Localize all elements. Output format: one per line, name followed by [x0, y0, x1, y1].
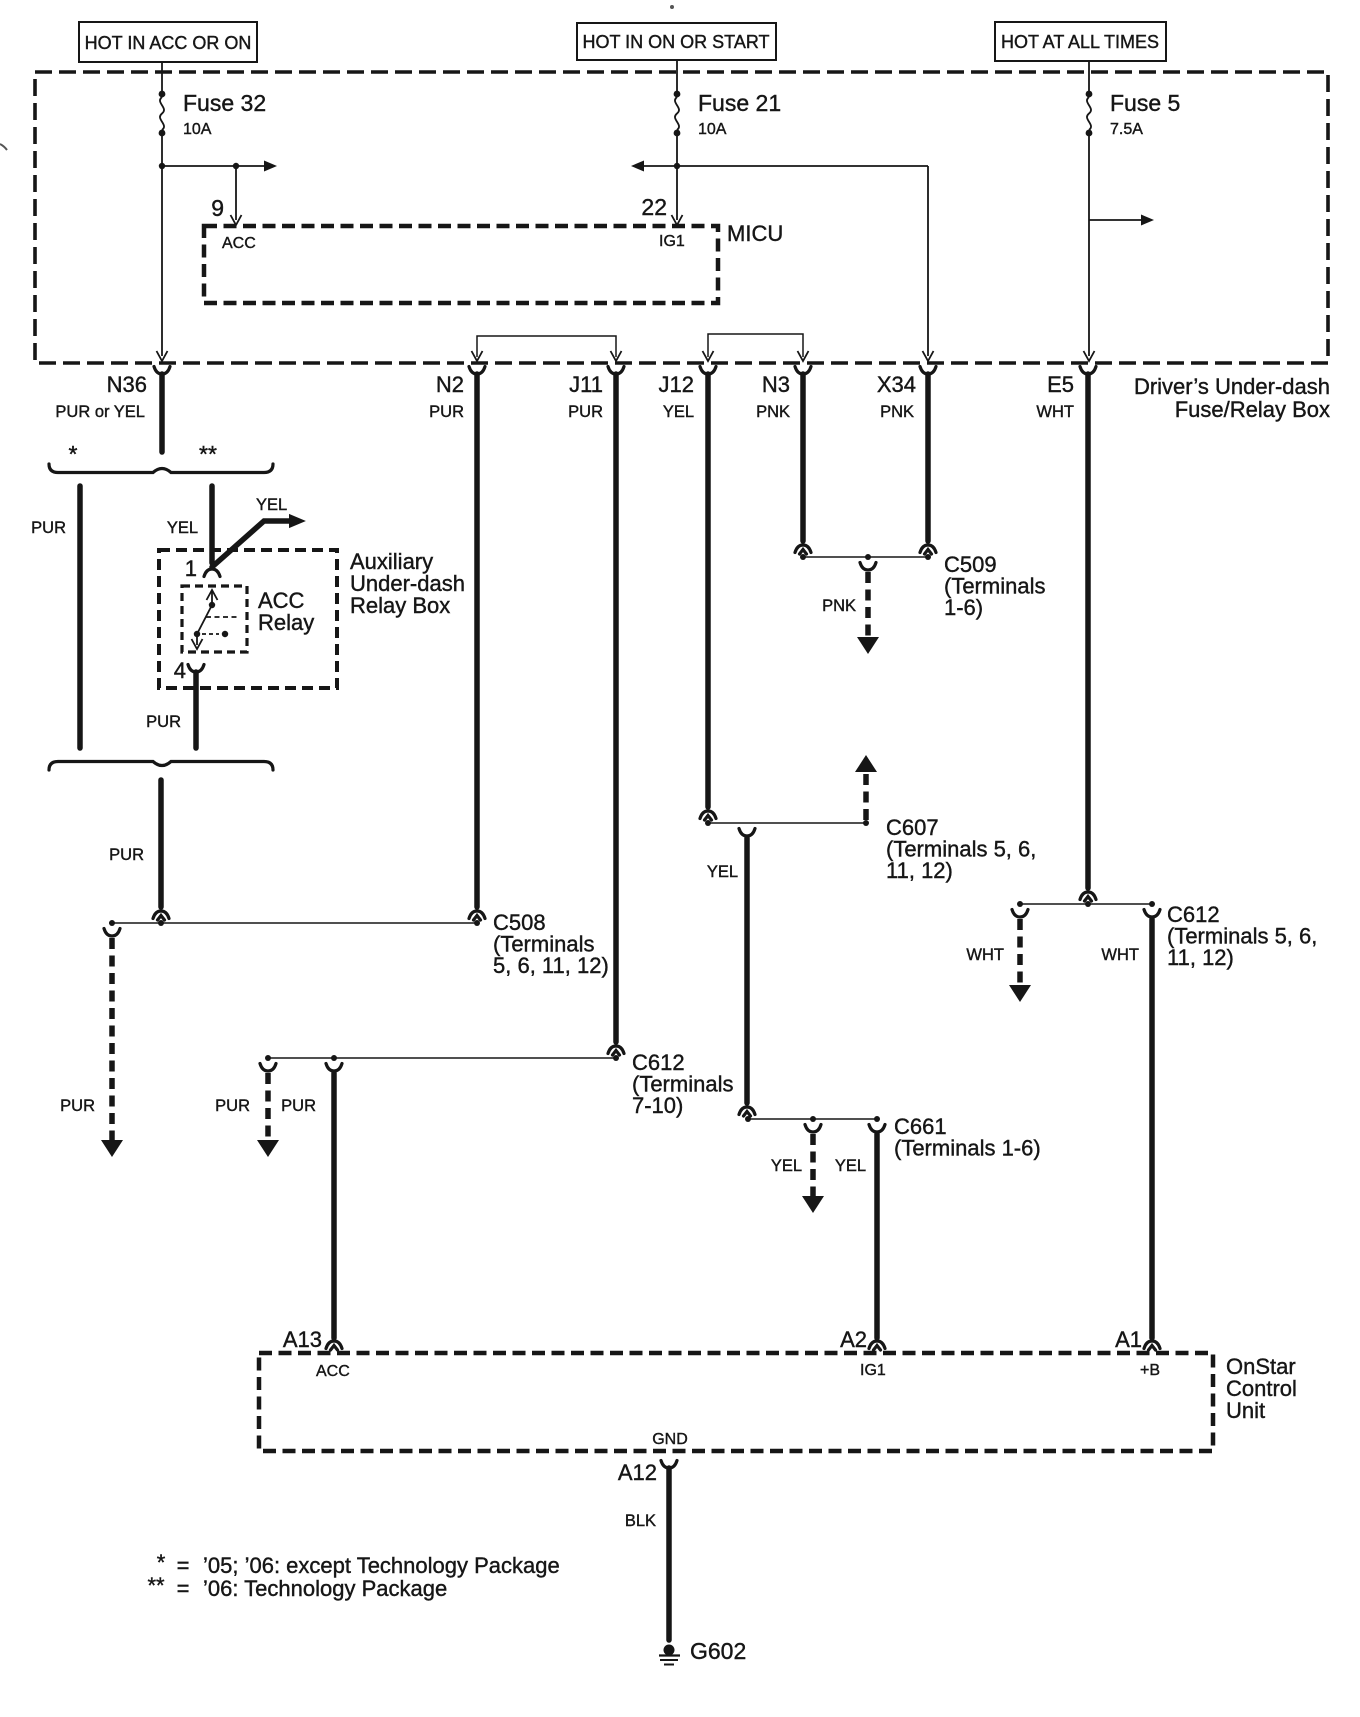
svg-text:HOT AT ALL TIMES: HOT AT ALL TIMES — [1001, 32, 1159, 52]
wire color label YEL (C607) — [707, 863, 738, 881]
connector E5 — [1080, 367, 1096, 375]
connector C612 end of E5 wire — [1080, 892, 1096, 901]
label MICU — [727, 221, 783, 246]
svg-text:WHT: WHT — [1036, 403, 1074, 421]
svg-text:HOT IN ON OR START: HOT IN ON OR START — [582, 32, 769, 52]
wire dashed WHT continues (C612) — [1009, 919, 1031, 1002]
connector C509 end of N3 wire — [795, 545, 811, 554]
MICU box — [204, 226, 718, 303]
wire N36 drop inside box — [157, 166, 168, 361]
wire YEL to OnStar A2 — [874, 1134, 880, 1338]
wire color label WHT (A1 wire) — [1101, 946, 1139, 964]
connector C508 end of N2 wire — [469, 911, 485, 920]
node C661 dots — [745, 1116, 880, 1122]
svg-text:YEL: YEL — [771, 1157, 802, 1175]
wire fuse 5 feed stub — [1088, 61, 1090, 92]
wire WHT to OnStar A1 — [1149, 919, 1155, 1338]
connector branch C612 to A1 — [1144, 910, 1160, 918]
connector N3 — [795, 367, 811, 375]
relay actuation dashed link — [206, 616, 238, 618]
svg-text:YEL: YEL — [835, 1157, 866, 1175]
connector N36 — [154, 367, 170, 375]
wire dashed YEL continues (C661) — [802, 1134, 824, 1213]
legend line 1 — [157, 1550, 560, 1578]
wire YEL arrow out of relay pin 1 — [212, 514, 306, 567]
stray scan mark top — [670, 5, 674, 9]
label A12 — [618, 1460, 657, 1485]
node C509 dots — [800, 554, 931, 560]
svg-text:N3: N3 — [762, 372, 790, 397]
svg-text:BLK: BLK — [625, 1512, 656, 1530]
connector C509 end of X34 wire — [920, 545, 936, 554]
svg-text:Fuse 5: Fuse 5 — [1110, 90, 1180, 116]
svg-text:N2: N2 — [436, 372, 464, 397]
connector C508 end of merged wire — [153, 911, 169, 920]
Auxiliary Under-dash Relay Box (dashed) — [159, 550, 337, 688]
stray scan mark left edge — [0, 144, 7, 150]
wire fuse 21 to junction — [676, 136, 678, 166]
node C612 dots (7-10) — [265, 1055, 619, 1061]
wire horizontal with left arrow and to X34 drop — [631, 161, 928, 172]
pin label ACC (OnStar) — [316, 1363, 350, 1380]
svg-text:4: 4 — [174, 658, 186, 683]
wire BLK to G602 — [666, 1468, 672, 1640]
wire X34 drop inside box — [923, 166, 934, 361]
wire color label YEL (J12) — [663, 403, 694, 421]
svg-text:(Terminals 1-6): (Terminals 1-6) — [894, 1136, 1041, 1161]
svg-text:Driver’s Under-dash: Driver’s Under-dash — [1134, 374, 1330, 399]
svg-text:IG1: IG1 — [860, 1362, 886, 1379]
relay contact node upper — [209, 602, 215, 608]
svg-text:11, 12): 11, 12) — [1167, 945, 1234, 970]
label C508 (Terminals 5, 6, 11, 12) — [493, 910, 609, 978]
svg-text:’06: Technology Package: ’06: Technology Package — [203, 1576, 447, 1601]
option split bracket top — [49, 464, 273, 473]
svg-text:E5: E5 — [1047, 372, 1074, 397]
wire N3 to C509 — [800, 374, 806, 541]
svg-text:PNK: PNK — [822, 597, 856, 615]
wire to MICU pin 9 with arrow — [231, 166, 242, 225]
svg-text:Fuse 21: Fuse 21 — [698, 90, 781, 116]
pin label ACC (MICU) — [222, 235, 256, 252]
label N3 — [762, 372, 790, 397]
svg-text:PUR: PUR — [429, 403, 464, 421]
svg-text:**: ** — [147, 1573, 165, 1598]
svg-text:22: 22 — [641, 194, 667, 220]
wire C661 tie line — [747, 1118, 877, 1120]
wire C509 tie line — [803, 556, 928, 558]
label N36 — [107, 372, 147, 397]
label J11 — [569, 372, 603, 397]
pin number 1 — [185, 556, 197, 581]
label C612 (Terminals 5, 6, 11, 12) — [1167, 902, 1317, 970]
svg-text:PUR: PUR — [60, 1097, 95, 1115]
wire color label WHT (C612 arrow) — [966, 946, 1004, 964]
relay alternate contact dashed — [202, 631, 228, 637]
wire branch right arrow from E5 drop — [1089, 215, 1154, 226]
svg-text:Relay Box: Relay Box — [350, 593, 450, 618]
svg-text:PUR: PUR — [31, 519, 66, 537]
node C508 dots — [109, 920, 480, 926]
svg-text:*: * — [157, 1550, 166, 1575]
wire color label YEL (arrow) — [256, 496, 287, 514]
wire to MICU pin 22 with arrow — [672, 166, 683, 225]
label A13 — [283, 1327, 322, 1352]
connector branch C612 left — [260, 1064, 276, 1072]
fuse F5 — [1086, 91, 1093, 137]
label G602 — [690, 1638, 746, 1664]
connector relay pin 4 — [188, 665, 204, 673]
svg-text:Unit: Unit — [1226, 1398, 1265, 1423]
connector A1 — [1144, 1341, 1160, 1350]
label J12 — [659, 372, 694, 397]
svg-text:A1: A1 — [1115, 1327, 1142, 1352]
svg-text:PUR: PUR — [215, 1097, 250, 1115]
svg-text:PUR: PUR — [109, 846, 144, 864]
svg-text:1: 1 — [185, 556, 197, 581]
svg-text:PNK: PNK — [756, 403, 790, 421]
wire N2 to C508 — [474, 374, 480, 907]
label C661 (Terminals 1-6) — [894, 1114, 1041, 1161]
label Auxiliary Under-dash Relay Box — [350, 549, 465, 618]
svg-text:**: ** — [199, 441, 217, 467]
svg-text:1-6): 1-6) — [944, 595, 983, 620]
wire color label PNK (N3) — [756, 403, 790, 421]
wire C612 tie line (5,6,11,12) — [1020, 903, 1152, 905]
wire YEL C607 to C661 — [744, 838, 750, 1103]
label Driver's Under-dash Fuse/Relay Box — [1134, 374, 1330, 422]
svg-text:=: = — [177, 1576, 190, 1601]
svg-text:J11: J11 — [569, 372, 603, 397]
connector branch at C508 left — [104, 929, 120, 937]
pin number 9 — [211, 195, 224, 221]
wire fuse 21 feed stub — [676, 60, 678, 92]
wire option YEL branch — [209, 486, 215, 563]
wire dashed arrow up to C509 (from C607) — [855, 755, 877, 820]
connector X34 — [920, 367, 936, 375]
wire color label PUR (C508 arrow) — [60, 1097, 95, 1115]
svg-text:MICU: MICU — [727, 221, 783, 246]
relay contact arrow down — [192, 634, 203, 649]
node branch dot to MICU pin 9 — [233, 163, 239, 169]
wire color label PUR (J11) — [568, 403, 603, 421]
svg-text:Fuse/Relay Box: Fuse/Relay Box — [1175, 397, 1330, 422]
wire color label PUR (option) — [31, 519, 66, 537]
svg-text:Relay: Relay — [258, 610, 314, 635]
wire merged PUR to C508 — [158, 780, 164, 907]
wire color label PNK (X34) — [880, 403, 914, 421]
wire color label PUR (pin 4) — [146, 713, 181, 731]
node C607 dots — [705, 820, 869, 826]
relay switch blade — [197, 605, 212, 634]
svg-text:7.5A: 7.5A — [1110, 121, 1143, 138]
pin number 22 — [641, 194, 667, 220]
wire fuse 32 feed stub — [161, 62, 163, 92]
connector branch C661 middle — [805, 1125, 821, 1133]
connector branch C509 middle — [860, 563, 876, 571]
node junction below fuse 21 — [674, 163, 680, 169]
wire color label YEL (option) — [167, 519, 198, 537]
connector branch C612 to A13 — [326, 1064, 342, 1072]
wire E5 to C612 — [1085, 374, 1091, 888]
pin label IG1 (MICU) — [659, 233, 685, 250]
relay contact node lower — [194, 631, 200, 637]
svg-text:10A: 10A — [183, 121, 212, 138]
option marker double asterisk — [199, 441, 217, 467]
svg-text:Fuse 32: Fuse 32 — [183, 90, 266, 116]
wire color label BLK — [625, 1512, 656, 1530]
label ACC Relay — [258, 588, 314, 635]
label E5 — [1047, 372, 1074, 397]
value label Fuse 21 10A — [698, 90, 781, 138]
label A2 — [840, 1327, 867, 1352]
svg-text:PNK: PNK — [880, 403, 914, 421]
wire relay pin 4 PUR — [193, 672, 199, 748]
svg-text:7-10): 7-10) — [632, 1093, 683, 1118]
connector J11 — [608, 367, 624, 375]
pin label +B (OnStar) — [1140, 1362, 1160, 1379]
wire dashed PUR continues (C508) — [101, 938, 123, 1157]
svg-text:GND: GND — [652, 1431, 688, 1448]
wire fuse 32 to junction — [161, 136, 163, 166]
wire color label YEL (C661 arrow) — [771, 1157, 802, 1175]
wire C508 tie line — [109, 922, 477, 924]
connector relay pin 1 — [204, 569, 220, 577]
connector branch C661 to A2 — [869, 1125, 885, 1133]
label box HOT IN ON OR START — [577, 23, 776, 60]
wire C607 tie line — [708, 822, 866, 824]
wire J12 to C607 — [705, 374, 711, 807]
connector A12 — [661, 1461, 677, 1469]
svg-text:J12: J12 — [659, 372, 694, 397]
connector C612 end of J11 wire — [608, 1046, 624, 1055]
wire color label PUR (merged) — [109, 846, 144, 864]
wire N36 stub — [159, 374, 165, 452]
svg-text:A2: A2 — [840, 1327, 867, 1352]
svg-text:10A: 10A — [698, 121, 727, 138]
connector branch C607 middle — [739, 829, 755, 837]
connector branch C612 left (WHT arrow) — [1012, 910, 1028, 918]
label A1 — [1115, 1327, 1142, 1352]
wire dashed PNK continues (C509) — [857, 572, 879, 654]
label C612 (Terminals 7-10) — [632, 1050, 733, 1118]
fuse F21 — [674, 91, 681, 137]
svg-text:X34: X34 — [877, 372, 916, 397]
pin label IG1 (OnStar) — [860, 1362, 886, 1379]
connector C607 end of J12 wire — [700, 811, 716, 820]
ground G602 — [659, 1645, 680, 1665]
svg-text:’05; ’06: except Technology Pa: ’05; ’06: except Technology Package — [203, 1553, 560, 1578]
connector C661 end of YEL wire — [739, 1107, 755, 1116]
value label Fuse 5 7.5A — [1110, 90, 1180, 138]
wire option PUR branch — [77, 486, 83, 748]
svg-text:YEL: YEL — [256, 496, 287, 514]
svg-text:G602: G602 — [690, 1638, 746, 1664]
wire color label PUR or YEL — [55, 403, 145, 421]
label N2 — [436, 372, 464, 397]
svg-text:11, 12): 11, 12) — [886, 858, 953, 883]
relay ACC inner dashed box — [182, 586, 247, 652]
label C607 (Terminals 5, 6, 11, 12) — [886, 815, 1036, 883]
svg-text:5, 6, 11, 12): 5, 6, 11, 12) — [493, 953, 609, 978]
svg-text:ACC: ACC — [316, 1363, 350, 1380]
OnStar Control Unit box — [259, 1353, 1213, 1451]
svg-text:IG1: IG1 — [659, 233, 685, 250]
svg-text:=: = — [177, 1553, 190, 1578]
relay contact arrow up — [207, 590, 218, 605]
svg-text:HOT IN ACC OR ON: HOT IN ACC OR ON — [85, 33, 252, 53]
svg-text:A12: A12 — [618, 1460, 657, 1485]
wire color label WHT (E5) — [1036, 403, 1074, 421]
label OnStar Control Unit — [1226, 1354, 1297, 1423]
wire jumper bracket N2 to J11 — [472, 336, 622, 361]
label box HOT AT ALL TIMES — [995, 22, 1166, 61]
wire PUR to OnStar A13 — [331, 1073, 337, 1338]
connector J12 — [700, 367, 716, 375]
wire color label PUR (N2) — [429, 403, 464, 421]
svg-text:PUR: PUR — [146, 713, 181, 731]
Driver's Under-dash Fuse/Relay Box (outer dashed box) — [35, 72, 1328, 363]
wire X34 to C509 — [925, 374, 931, 541]
svg-text:YEL: YEL — [707, 863, 738, 881]
wire color label PUR (A13 wire) — [281, 1097, 316, 1115]
option merge bracket bottom — [49, 762, 273, 771]
connector A2 — [869, 1341, 885, 1350]
svg-text:A13: A13 — [283, 1327, 322, 1352]
svg-text:+B: +B — [1140, 1362, 1160, 1379]
wire E5 drop inside box — [1084, 136, 1095, 361]
option marker asterisk — [69, 441, 78, 467]
svg-text:ACC: ACC — [222, 235, 256, 252]
svg-text:WHT: WHT — [966, 946, 1004, 964]
svg-text:YEL: YEL — [663, 403, 694, 421]
wire branch right from fuse 32 — [162, 161, 277, 172]
svg-text:PUR: PUR — [568, 403, 603, 421]
node junction below fuse 32 — [159, 163, 165, 169]
wire color label YEL (A2 wire) — [835, 1157, 866, 1175]
svg-text:WHT: WHT — [1101, 946, 1139, 964]
wire color label PNK (C509 arrow) — [822, 597, 856, 615]
svg-text:*: * — [69, 441, 78, 467]
svg-text:PUR or YEL: PUR or YEL — [55, 403, 145, 421]
label box HOT IN ACC OR ON — [79, 22, 257, 62]
label C509 (Terminals 1-6) — [944, 552, 1045, 620]
wire J11 to C612 — [613, 374, 619, 1042]
wire color label PUR (C612 arrow) — [215, 1097, 250, 1115]
pin label GND (OnStar) — [652, 1431, 688, 1448]
value label Fuse 32 10A — [183, 90, 266, 138]
svg-text:YEL: YEL — [167, 519, 198, 537]
connector N2 — [469, 367, 485, 375]
label X34 — [877, 372, 916, 397]
wire jumper bracket J12 to N3 — [703, 334, 809, 361]
node C612 dots (5,6,11,12) — [1017, 901, 1155, 907]
fuse F32 — [159, 91, 166, 137]
wire dashed PUR continues (C612 7-10) — [257, 1073, 279, 1157]
svg-text:9: 9 — [211, 195, 224, 221]
pin number 4 — [174, 658, 186, 683]
wire C612 tie line (7-10) — [268, 1057, 616, 1059]
svg-text:PUR: PUR — [281, 1097, 316, 1115]
svg-text:N36: N36 — [107, 372, 147, 397]
legend line 2 — [147, 1573, 447, 1601]
connector A13 — [326, 1341, 342, 1350]
